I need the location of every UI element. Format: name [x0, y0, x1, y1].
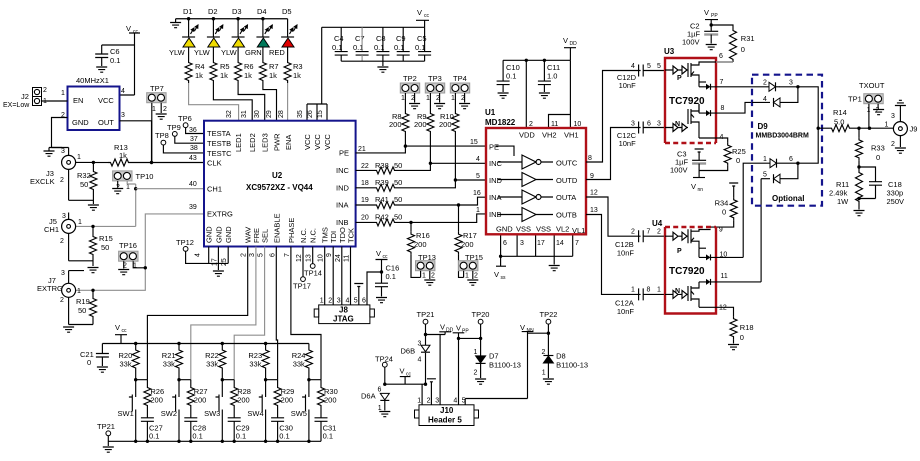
svg-text:9: 9 — [326, 253, 333, 257]
wire U1 bottom pins bus — [501, 235, 573, 267]
mosfet N (U4) — [665, 282, 716, 307]
svg-text:3: 3 — [520, 240, 524, 247]
wire U4 pin12 to R18 — [716, 307, 734, 316]
node R32 top — [92, 161, 95, 164]
svg-text:PWR: PWR — [273, 133, 282, 151]
capacitor C30 0.1 — [271, 418, 293, 442]
switch SW1 — [118, 378, 148, 441]
svg-text:CH1: CH1 — [44, 225, 59, 234]
svg-text:TP14: TP14 — [304, 269, 322, 278]
wire OUTD to C12C — [586, 128, 641, 181]
svg-text:1: 1 — [61, 90, 65, 97]
wire D3 to U2 LED3 — [238, 83, 265, 121]
svg-text:LED1: LED1 — [234, 133, 243, 152]
diode D9 1-6 — [752, 128, 818, 168]
diode D9 pin4 — [752, 85, 800, 107]
svg-text:IND: IND — [489, 176, 503, 185]
svg-text:ENABLE: ENABLE — [272, 213, 281, 243]
svg-text:V: V — [417, 8, 422, 17]
svg-text:V: V — [115, 323, 120, 332]
resistor R20 33k — [119, 344, 140, 380]
wire U3 pin7 to D9 pin2 — [716, 86, 769, 88]
svg-text:36: 36 — [189, 127, 197, 134]
svg-text:RED: RED — [269, 48, 285, 57]
svg-text:3: 3 — [62, 213, 66, 220]
ground C21 — [97, 367, 108, 372]
svg-text:LED3: LED3 — [261, 133, 270, 152]
svg-text:1W: 1W — [837, 197, 849, 206]
power Vnn (below C3) — [691, 178, 705, 194]
wire U4 pin11 to D9 pin5 — [760, 179, 762, 282]
capacitor C11 — [538, 59, 560, 92]
svg-text:1: 1 — [401, 95, 405, 102]
svg-text:OUTC: OUTC — [556, 159, 578, 168]
svg-text:35: 35 — [297, 110, 304, 118]
ground LED rail — [170, 23, 181, 28]
svg-text:YLW: YLW — [194, 48, 211, 57]
svg-text:D6A: D6A — [361, 392, 376, 401]
capacitor C12A 10nF — [615, 287, 666, 317]
svg-text:IND: IND — [336, 184, 350, 193]
svg-text:14: 14 — [556, 240, 564, 247]
svg-text:VCC: VCC — [323, 134, 332, 150]
svg-text:100V: 100V — [670, 166, 688, 175]
diode D9 pin5 — [761, 162, 800, 184]
svg-text:TP4: TP4 — [453, 74, 467, 83]
svg-text:2: 2 — [474, 273, 478, 280]
svg-text:TDO: TDO — [338, 227, 347, 243]
transistor driver U4 TC7920 — [652, 219, 761, 314]
svg-text:cc: cc — [133, 29, 139, 35]
svg-text:3: 3 — [61, 148, 65, 155]
svg-text:1k: 1k — [244, 71, 252, 80]
switch SW4 — [247, 378, 277, 441]
svg-text:6: 6 — [719, 53, 723, 60]
svg-text:3: 3 — [61, 270, 65, 277]
transistor driver U3 TC7920 — [664, 47, 752, 143]
svg-text:N.C.: N.C. — [299, 228, 308, 243]
svg-text:5: 5 — [476, 173, 480, 180]
svg-text:GND: GND — [224, 226, 233, 243]
resistor R42 50 — [356, 207, 486, 226]
svg-text:R16: R16 — [416, 231, 430, 240]
svg-text:16: 16 — [473, 190, 481, 197]
ground cap bank — [377, 67, 388, 72]
svg-text:R31: R31 — [741, 34, 755, 43]
svg-text:U4: U4 — [652, 219, 663, 228]
svg-text:7: 7 — [284, 253, 291, 257]
svg-text:10nF: 10nF — [619, 139, 637, 148]
optional box D9 — [752, 75, 822, 206]
svg-text:9: 9 — [719, 227, 723, 234]
svg-text:PE: PE — [339, 149, 349, 158]
svg-text:Optional: Optional — [772, 194, 804, 203]
connector J8 JTAG — [314, 298, 374, 324]
svg-text:19: 19 — [361, 197, 369, 204]
capacitor C8 — [374, 27, 389, 61]
svg-text:TC7920: TC7920 — [669, 266, 705, 277]
wire LED top rail — [176, 19, 288, 23]
resistor R27 200 — [187, 380, 207, 418]
buffer triangles inside U1 — [522, 155, 536, 222]
svg-text:1: 1 — [542, 370, 546, 377]
ground TP13 — [424, 280, 435, 285]
svg-text:TESTC: TESTC — [207, 149, 232, 158]
svg-text:MMBD3004BRM: MMBD3004BRM — [756, 133, 809, 140]
wire osc OUT to CLK net — [120, 121, 152, 163]
svg-text:0.1: 0.1 — [506, 72, 516, 81]
svg-text:1: 1 — [426, 95, 430, 102]
svg-text:200: 200 — [414, 120, 427, 129]
svg-text:12: 12 — [296, 254, 303, 262]
resistor R26 200 — [144, 380, 164, 418]
wire WAV to SW column1 — [147, 247, 247, 380]
testpoint TP21 bottom — [97, 422, 115, 446]
resistor R21 33k — [162, 344, 183, 380]
svg-text:1: 1 — [422, 273, 426, 280]
svg-text:TESTB: TESTB — [207, 139, 231, 148]
testpoint TP22 — [540, 310, 558, 355]
svg-text:1: 1 — [152, 106, 156, 113]
ground below R32 — [88, 205, 99, 210]
op-amp U2 XC9572XZ-VQ44 body — [204, 121, 356, 247]
svg-text:TC7920: TC7920 — [669, 96, 705, 107]
resistor R33 0 — [856, 128, 885, 167]
svg-text:C9: C9 — [396, 34, 406, 43]
testpoint TP7 — [147, 84, 167, 163]
capacitor C4 — [332, 27, 348, 61]
svg-text:13: 13 — [306, 254, 313, 262]
testpoint TP2 — [400, 74, 419, 111]
svg-text:200: 200 — [150, 396, 163, 405]
svg-text:2: 2 — [474, 370, 478, 377]
svg-text:10: 10 — [318, 254, 325, 262]
svg-text:3: 3 — [249, 253, 256, 257]
ground C16 — [376, 298, 387, 303]
svg-text:INC: INC — [336, 166, 350, 175]
svg-text:2: 2 — [431, 273, 435, 280]
svg-text:TP3: TP3 — [428, 74, 442, 83]
resistor R29 200 — [274, 380, 294, 418]
svg-text:32: 32 — [226, 110, 233, 118]
ground D8 — [543, 379, 554, 384]
svg-text:P: P — [677, 248, 682, 255]
svg-text:1: 1 — [465, 273, 469, 280]
ground C2 — [706, 45, 717, 50]
ground TP1 — [873, 110, 884, 115]
svg-text:VDD: VDD — [519, 131, 535, 140]
wire U2 GND pins to ground — [209, 247, 229, 270]
svg-text:OUT: OUT — [98, 118, 114, 127]
ground bar J10 pin2 — [427, 379, 436, 382]
svg-text:33k: 33k — [249, 360, 261, 369]
svg-text:0: 0 — [722, 208, 726, 217]
svg-text:ENA: ENA — [284, 135, 293, 150]
resistor R15 50 — [90, 225, 113, 266]
svg-text:2: 2 — [60, 177, 64, 184]
testpoint TP16 — [119, 241, 147, 270]
svg-text:R34: R34 — [715, 199, 729, 208]
ground TP10 — [112, 189, 123, 194]
testpoint TP3 — [425, 74, 444, 111]
svg-text:2: 2 — [876, 107, 880, 114]
resistor R17 200 — [455, 205, 477, 277]
svg-text:R6: R6 — [244, 62, 254, 71]
testpoint TP9 — [167, 123, 204, 143]
power Vcc (J10) — [400, 367, 412, 385]
svg-text:100V: 100V — [682, 38, 700, 47]
testpoint TP6 — [178, 114, 204, 134]
svg-text:C4: C4 — [334, 34, 344, 43]
svg-text:50: 50 — [394, 195, 402, 204]
svg-text:Header 5: Header 5 — [428, 416, 462, 425]
resistor R3 1k — [284, 47, 302, 83]
svg-text:D9: D9 — [758, 122, 769, 131]
ground D6A — [379, 412, 390, 417]
svg-text:0.1: 0.1 — [192, 432, 202, 441]
svg-text:6: 6 — [789, 156, 793, 163]
capacitor C6 — [95, 45, 120, 66]
svg-text:1k: 1k — [119, 151, 127, 160]
svg-text:DD: DD — [570, 41, 578, 47]
svg-text:D4: D4 — [257, 7, 267, 16]
svg-text:4: 4 — [453, 398, 457, 405]
svg-text:VCC: VCC — [98, 96, 114, 105]
svg-text:10nF: 10nF — [619, 81, 637, 90]
svg-text:0.1: 0.1 — [415, 43, 425, 52]
svg-text:OUTA: OUTA — [556, 193, 576, 202]
BNC J9 TXOUT — [885, 106, 918, 148]
svg-text:43: 43 — [189, 155, 197, 162]
resistor R5 1k — [210, 47, 230, 83]
svg-text:R17: R17 — [463, 231, 477, 240]
svg-text:D8: D8 — [556, 352, 566, 361]
svg-text:3: 3 — [789, 80, 793, 87]
resistor R38 50 — [356, 156, 486, 174]
svg-text:0.1: 0.1 — [386, 272, 396, 281]
capacitor C12C 10nF — [617, 121, 665, 149]
svg-text:J8: J8 — [339, 306, 348, 315]
svg-text:DD: DD — [446, 328, 454, 334]
svg-text:VSS: VSS — [516, 225, 531, 234]
svg-text:SW5: SW5 — [291, 409, 307, 418]
svg-text:12: 12 — [590, 190, 598, 197]
svg-text:N.C.: N.C. — [309, 228, 318, 243]
svg-text:R32: R32 — [77, 171, 91, 180]
svg-text:3: 3 — [121, 112, 125, 119]
svg-text:7: 7 — [575, 240, 579, 247]
svg-text:1: 1 — [417, 398, 421, 405]
svg-text:2: 2 — [328, 298, 332, 305]
resistor R11 2.49k 1W — [829, 167, 863, 210]
svg-text:1k: 1k — [269, 71, 277, 80]
svg-text:EXCLK: EXCLK — [30, 177, 55, 186]
wire PE net U2 pin21 to U1 pin15 — [356, 139, 486, 153]
svg-text:D1: D1 — [183, 7, 193, 16]
svg-text:R5: R5 — [220, 62, 230, 71]
svg-text:C6: C6 — [110, 47, 120, 56]
resistor R30 200 — [318, 380, 338, 418]
svg-text:37: 37 — [190, 136, 198, 143]
wire switch bottom rail — [108, 440, 321, 442]
svg-text:VH2: VH2 — [542, 131, 557, 140]
resistor R4 1k — [185, 47, 204, 83]
svg-text:5: 5 — [763, 172, 767, 179]
svg-text:2: 2 — [631, 229, 635, 236]
svg-text:R3: R3 — [293, 62, 303, 71]
svg-text:SW1: SW1 — [118, 409, 134, 418]
svg-text:11: 11 — [721, 273, 728, 280]
wire VDD rail to U1 — [503, 60, 570, 128]
svg-text:PHASE: PHASE — [287, 218, 296, 243]
power Vcc (C16) — [376, 249, 389, 283]
svg-text:U2: U2 — [272, 171, 283, 180]
svg-text:6: 6 — [362, 298, 366, 305]
ground bottom rail — [103, 447, 114, 452]
svg-text:1: 1 — [657, 287, 661, 294]
svg-text:0.1: 0.1 — [323, 432, 333, 441]
svg-text:26: 26 — [307, 110, 314, 118]
oscillator X1 40MHzX1 — [61, 76, 125, 130]
svg-text:17: 17 — [537, 240, 545, 247]
ground bar J8 pin5 — [354, 284, 363, 287]
ground U2 GND — [213, 271, 224, 276]
svg-text:D7: D7 — [489, 352, 499, 361]
capacitor C16 0.1 — [375, 264, 399, 297]
power Vcc (switch bank) — [115, 323, 127, 344]
node output junction — [857, 127, 860, 130]
diode D8 B1100-13 — [542, 349, 589, 378]
svg-text:TCK: TCK — [347, 228, 356, 243]
svg-text:3: 3 — [631, 121, 635, 128]
switch SW2 — [161, 378, 191, 441]
svg-text:50: 50 — [394, 178, 402, 187]
capacitor C2 1uF 100V — [682, 22, 718, 47]
pin numbers U1 top — [529, 121, 581, 128]
svg-text:nn: nn — [698, 187, 704, 193]
resistor R24 33k — [292, 344, 313, 380]
switch SW3 — [204, 378, 234, 441]
svg-text:INA: INA — [336, 201, 349, 210]
svg-text:J10: J10 — [440, 406, 454, 415]
svg-text:29: 29 — [266, 110, 273, 118]
testpoint TP13 — [416, 253, 436, 280]
svg-text:TP20: TP20 — [472, 310, 490, 319]
svg-text:V: V — [376, 249, 381, 258]
resistor R7 1k — [259, 47, 278, 83]
wire D2 to U2 LED2 — [213, 83, 252, 121]
svg-text:GRN: GRN — [245, 48, 262, 57]
svg-text:SW2: SW2 — [161, 409, 177, 418]
svg-text:VSS: VSS — [536, 225, 551, 234]
svg-text:50: 50 — [101, 243, 109, 252]
node CLK junction — [150, 161, 153, 164]
svg-text:D5: D5 — [282, 7, 292, 16]
wire EXTRG net (J7 to U2 pin39) — [76, 214, 204, 290]
LED D3 YLW — [221, 7, 248, 57]
node D9 out — [817, 127, 820, 130]
svg-text:2: 2 — [43, 87, 47, 94]
svg-text:V: V — [563, 36, 568, 45]
svg-text:22: 22 — [361, 163, 369, 170]
svg-text:V: V — [456, 324, 461, 333]
svg-text:R15: R15 — [99, 234, 113, 243]
testpoint TP8 — [155, 131, 204, 153]
resistor R32 50 — [77, 162, 97, 204]
capacitor C28 0.1 — [184, 418, 206, 442]
svg-text:J2: J2 — [21, 92, 29, 101]
svg-text:250V: 250V — [887, 197, 905, 206]
diode D6B — [401, 341, 431, 385]
svg-text:OUTD: OUTD — [556, 176, 578, 185]
svg-text:PP: PP — [711, 13, 718, 19]
mosfet N (U3) — [665, 104, 716, 138]
svg-text:2: 2 — [657, 229, 661, 236]
power VDD (U1 top) — [563, 36, 577, 60]
svg-text:CH1: CH1 — [207, 185, 222, 194]
svg-text:PP: PP — [462, 329, 469, 335]
resistor R8 200 — [389, 111, 409, 146]
svg-text:0: 0 — [740, 333, 744, 342]
diode D7 B1100-13 — [474, 349, 521, 378]
svg-text:1.0: 1.0 — [547, 72, 557, 81]
svg-text:13: 13 — [590, 207, 598, 214]
power VNN (J10) — [520, 323, 534, 399]
svg-text:1: 1 — [320, 298, 324, 305]
svg-text:R33: R33 — [871, 144, 885, 153]
BNC J3 EXCLK — [30, 148, 93, 201]
capacitor C12D 10nF — [617, 63, 665, 90]
ground R11 — [854, 211, 865, 216]
resistor R34 0 — [711, 186, 738, 227]
svg-text:INB: INB — [336, 218, 349, 227]
wire D4 to U2 PWR — [263, 83, 277, 121]
resistor R25 0 — [699, 143, 746, 171]
wire D5 to U2 ENA — [287, 83, 289, 121]
diode D6A — [361, 387, 389, 413]
svg-text:TP12: TP12 — [176, 238, 194, 247]
capacitor C31 0.1 — [315, 418, 337, 442]
svg-text:2: 2 — [241, 253, 248, 257]
svg-text:2: 2 — [60, 297, 64, 304]
svg-text:5: 5 — [258, 253, 265, 257]
svg-text:33k: 33k — [206, 360, 218, 369]
wire OUTA to C12B — [586, 190, 641, 237]
svg-text:50: 50 — [394, 213, 402, 222]
wire TP24/Vcc/D6B/J10 pin1 bus — [385, 384, 426, 405]
svg-text:10nF: 10nF — [617, 249, 635, 258]
svg-text:V: V — [494, 270, 499, 279]
svg-text:ss: ss — [501, 275, 507, 281]
svg-text:VL2: VL2 — [556, 225, 569, 234]
svg-text:TESTA: TESTA — [207, 129, 231, 138]
svg-text:VL1: VL1 — [572, 226, 585, 235]
power VPP (J10) — [453, 324, 470, 405]
svg-text:4: 4 — [195, 253, 202, 257]
testpoint TP24 — [375, 355, 393, 385]
ground below J7/R19 — [63, 327, 74, 332]
wire PHASE to SW column5 — [291, 247, 321, 380]
svg-text:YLW: YLW — [221, 48, 238, 57]
svg-text:1k: 1k — [220, 71, 228, 80]
svg-text:8: 8 — [647, 287, 651, 294]
svg-text:1: 1 — [631, 287, 635, 294]
resistor R6 1k — [235, 47, 254, 83]
svg-text:C8: C8 — [376, 34, 386, 43]
svg-text:20: 20 — [361, 215, 369, 222]
svg-text:50: 50 — [394, 161, 402, 170]
svg-text:38: 38 — [190, 145, 198, 152]
